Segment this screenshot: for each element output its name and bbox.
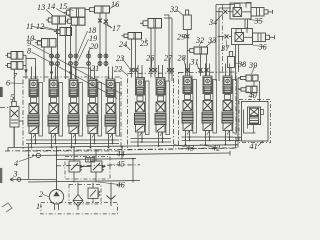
pump pressure line bbox=[56, 148, 58, 190]
svg-text:42: 42 bbox=[212, 144, 220, 153]
lines from box 36 down bbox=[235, 44, 237, 81]
cylinder 10 bbox=[42, 39, 57, 47]
line from cylinder 12 bbox=[65, 36, 67, 80]
riser line 36 bbox=[218, 8, 220, 81]
cylinder 14 bbox=[71, 17, 85, 25]
block 41 outer bbox=[242, 102, 269, 142]
svg-text:2: 2 bbox=[39, 190, 43, 199]
pilot valve 38 bbox=[228, 57, 235, 68]
valve 5 link bbox=[19, 120, 23, 122]
cylinder 13 bbox=[52, 16, 66, 24]
throttle valves 17 bbox=[98, 19, 102, 23]
line from cylinder 10b bbox=[51, 47, 53, 79]
check valve line A4 bbox=[88, 51, 90, 80]
valve section B1 pilot bbox=[136, 78, 145, 96]
link line 45 bbox=[80, 166, 91, 168]
valve box 35 bbox=[230, 3, 251, 19]
pressure bus 44 bbox=[8, 145, 238, 148]
line assembly 35 top bbox=[216, 4, 235, 6]
line from cylinder 25c bbox=[168, 15, 170, 81]
check valve pair 19b bbox=[98, 62, 102, 66]
valve section C3 pilot bbox=[223, 76, 232, 94]
line from cylinder 14 bbox=[75, 25, 77, 79]
valve section A3 pilot bbox=[69, 79, 78, 97]
svg-text:40: 40 bbox=[249, 91, 257, 100]
cylinder 39 bbox=[246, 75, 258, 81]
svg-text:32: 32 bbox=[169, 5, 178, 14]
valve section B2 pilot bbox=[156, 78, 165, 96]
line from cylinder 7a bbox=[23, 54, 26, 56]
svg-text:8: 8 bbox=[27, 47, 31, 56]
check valve dark b bbox=[69, 72, 72, 76]
svg-text:17: 17 bbox=[112, 24, 121, 33]
leader 8 diagonal bbox=[32, 52, 118, 99]
cylinder 33 bbox=[194, 47, 208, 54]
check valve 4 bbox=[36, 153, 40, 157]
block 43 boundary bbox=[128, 73, 174, 150]
svg-text:13: 13 bbox=[37, 3, 45, 12]
valve section A4 bbox=[90, 98, 96, 103]
cylinder 15 bbox=[70, 8, 85, 17]
valve 5 bbox=[10, 107, 19, 128]
chain riser bbox=[222, 5, 224, 74]
breather bbox=[110, 183, 112, 207]
valve section 41 bbox=[248, 107, 261, 125]
relief valve bottom bbox=[88, 188, 98, 199]
riser 44 bbox=[121, 148, 123, 160]
arrow 3 bbox=[10, 178, 14, 180]
feed 45a bbox=[73, 148, 75, 162]
edge mark c bbox=[2, 203, 12, 212]
check valve pair 20 bbox=[69, 62, 73, 66]
cylinder 36 bbox=[253, 33, 266, 42]
cylinder 16 bbox=[95, 6, 110, 13]
check valve pair 19a bbox=[98, 54, 102, 58]
svg-text:1: 1 bbox=[36, 202, 40, 211]
check valve dark a bbox=[50, 72, 53, 76]
svg-text:20: 20 bbox=[90, 42, 98, 51]
svg-text:4: 4 bbox=[14, 159, 18, 168]
valve section A1 pilot bbox=[29, 79, 38, 97]
line from cylinder 10a bbox=[43, 47, 45, 82]
check valve 28 bbox=[185, 68, 189, 72]
svg-text:37: 37 bbox=[220, 44, 230, 53]
drain 45b bbox=[95, 172, 97, 183]
feed 45b bbox=[95, 151, 97, 161]
cylinder 24 bbox=[128, 33, 142, 40]
return chain line bbox=[56, 165, 140, 166]
line from cylinder 25d bbox=[171, 18, 173, 81]
link 39 40 bbox=[253, 81, 255, 86]
pilot valve 32 bbox=[183, 15, 191, 30]
link box35 cyl35 bbox=[242, 11, 252, 13]
line from cylinder 33b bbox=[206, 54, 208, 76]
link box36 cyl36 bbox=[244, 36, 253, 38]
tank 1 bbox=[41, 203, 118, 214]
block 42 boundary bbox=[179, 72, 237, 149]
junction dots bbox=[56, 146, 58, 148]
block 43 internal bus bbox=[131, 138, 172, 140]
svg-text:32: 32 bbox=[195, 36, 204, 45]
block 41 boundary bbox=[239, 100, 271, 143]
valve section A5 pilot bbox=[106, 79, 115, 97]
block 45 boundary bbox=[65, 157, 110, 180]
pipe inside block 41 bbox=[244, 110, 256, 134]
svg-text:23: 23 bbox=[116, 54, 124, 63]
valve section A1 bbox=[31, 98, 37, 103]
svg-text:43: 43 bbox=[186, 144, 194, 153]
drain 45a bbox=[73, 172, 75, 183]
svg-text:36: 36 bbox=[258, 43, 268, 52]
filter bbox=[73, 195, 83, 207]
check valve 29 bbox=[185, 34, 189, 38]
cylinder 35 bbox=[251, 8, 264, 17]
filter block boundary bbox=[69, 185, 101, 205]
check valve pair 21a bbox=[50, 54, 54, 58]
line from cylinder 16a bbox=[99, 13, 101, 67]
line cylinder 39 down bbox=[259, 81, 261, 102]
line valve 5 up bbox=[13, 69, 15, 101]
svg-text:16: 16 bbox=[111, 0, 120, 9]
chain stub left bbox=[0, 107, 10, 109]
line from cylinder 16b bbox=[105, 13, 107, 67]
check valve pair 21b bbox=[50, 62, 54, 66]
svg-text:45: 45 bbox=[117, 160, 125, 169]
valve section C2 bbox=[205, 95, 211, 100]
check valves 31 bbox=[199, 68, 203, 72]
check valve 3 bbox=[17, 178, 21, 182]
svg-text:41: 41 bbox=[250, 142, 258, 151]
relief bottom lines bbox=[92, 183, 94, 189]
check valve 34 bbox=[223, 10, 227, 14]
relief valve 45a bbox=[69, 161, 80, 172]
riser line 35 bbox=[215, 5, 217, 82]
chain bus line bbox=[5, 148, 236, 151]
drain line 46 bbox=[28, 181, 140, 183]
relief valve 45b bbox=[91, 161, 102, 172]
bus stubs to block 41 bbox=[232, 136, 242, 138]
svg-text:29: 29 bbox=[177, 33, 185, 42]
riser cylinder 39 40 bbox=[237, 78, 239, 148]
block 6 internal bus bbox=[26, 139, 119, 141]
cylinder 7b bbox=[11, 62, 23, 70]
svg-text:3: 3 bbox=[13, 170, 18, 179]
svg-text:26: 26 bbox=[146, 54, 155, 63]
line from cylinder 24a bbox=[131, 39, 133, 78]
valve section B1 bbox=[137, 96, 143, 101]
svg-text:35: 35 bbox=[254, 17, 263, 26]
valve section C2 pilot bbox=[203, 76, 212, 94]
bus line d bbox=[56, 158, 136, 161]
block 6 boundary bbox=[23, 77, 121, 151]
valve section A5 bbox=[108, 98, 114, 103]
valve section B2 bbox=[158, 96, 164, 101]
line from cylinder 25a bbox=[150, 28, 152, 78]
check valves 27 bbox=[149, 68, 153, 72]
svg-text:14: 14 bbox=[47, 2, 55, 11]
valve box 36 bbox=[232, 29, 253, 45]
filter line bbox=[77, 183, 79, 195]
cylinder 40 bbox=[246, 86, 257, 92]
strainer 45 bbox=[86, 158, 95, 163]
pump suction bbox=[54, 204, 56, 210]
line 3 bbox=[10, 179, 57, 181]
svg-text:27: 27 bbox=[164, 54, 173, 63]
cylinder 7a bbox=[11, 52, 23, 60]
valve section A2 bbox=[51, 98, 57, 103]
svg-text:25: 25 bbox=[140, 39, 148, 48]
svg-text:33: 33 bbox=[207, 36, 216, 45]
svg-text:38: 38 bbox=[237, 60, 246, 69]
valve section A2 pilot bbox=[49, 79, 58, 97]
cylinder 12 bbox=[60, 28, 72, 36]
valve section C1 pilot bbox=[183, 76, 192, 94]
line from cylinder 24b bbox=[135, 39, 137, 78]
line from cylinder 13 bbox=[57, 24, 59, 79]
line from cylinder 7b bbox=[23, 64, 26, 66]
svg-text:15: 15 bbox=[59, 2, 67, 11]
check valve 37 bbox=[225, 35, 229, 39]
check valve pair 18 bbox=[69, 54, 73, 58]
svg-text:34: 34 bbox=[208, 18, 217, 27]
line from cylinder 25b bbox=[154, 28, 156, 78]
valve section C3 bbox=[225, 95, 231, 100]
pump 2 bbox=[49, 190, 63, 204]
line 46 riser bbox=[132, 160, 134, 183]
svg-text:24: 24 bbox=[119, 40, 127, 49]
valve section A4 pilot bbox=[88, 79, 97, 97]
svg-text:22: 22 bbox=[114, 65, 122, 74]
valve section C1 bbox=[185, 95, 191, 100]
block 42 internal bus bbox=[182, 136, 234, 138]
link 35 36 bbox=[244, 19, 246, 29]
cylinder 25 bbox=[148, 19, 162, 29]
return bus line bbox=[33, 153, 230, 156]
valve section A3 bbox=[71, 98, 77, 103]
check valves 26 bbox=[130, 68, 134, 72]
svg-text:44: 44 bbox=[117, 150, 125, 159]
line valve 5 down bbox=[13, 127, 15, 148]
check valve 6a bbox=[24, 70, 27, 74]
line from cylinder 33a bbox=[200, 54, 202, 76]
riser to line 3 bbox=[28, 144, 30, 180]
svg-text:39: 39 bbox=[248, 61, 257, 70]
edge mark b bbox=[0, 168, 2, 183]
leader 9 diagonal bbox=[32, 45, 123, 95]
line from cylinder 15 bbox=[70, 25, 72, 79]
edge mark a bbox=[0, 87, 3, 97]
svg-text:21: 21 bbox=[91, 64, 99, 73]
bus left risers bbox=[13, 127, 15, 148]
